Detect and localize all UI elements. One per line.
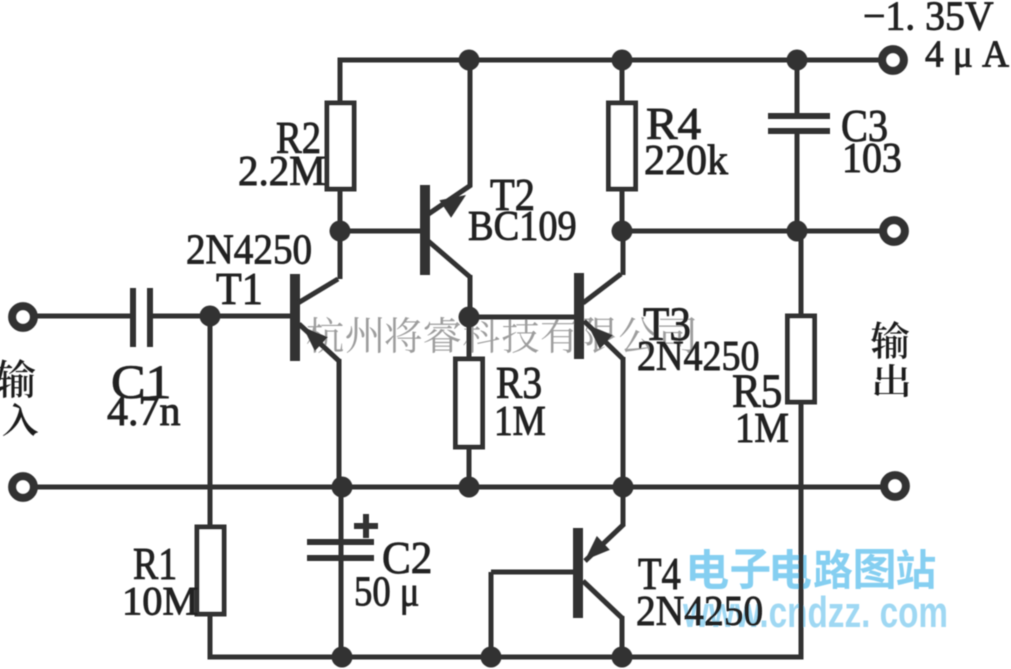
watermark blue site name: [690, 549, 935, 589]
wire C3 top lead: [795, 60, 800, 113]
transistor T1 2N4250: [290, 231, 343, 487]
svg-text:4.7n: 4.7n: [107, 389, 181, 435]
terminal -1.35V supply: [882, 49, 904, 71]
wire R3 bottom lead: [467, 447, 472, 487]
wire R5 bottom lead: [799, 402, 804, 660]
label input chinese: [0, 359, 38, 436]
resistor R1: [197, 527, 224, 614]
wire R5 top lead: [799, 231, 804, 316]
svg-text:T1: T1: [216, 265, 263, 315]
wire C1 to T1 base: [153, 314, 290, 319]
capacitor C1: [130, 288, 153, 347]
wire R4 bottom lead: [620, 189, 625, 231]
watermark gray company text: [307, 317, 695, 353]
capacitor C2 electrolytic: [307, 514, 378, 561]
svg-text:2.2M: 2.2M: [238, 148, 326, 195]
node R4 / T3 collector / rail2: [612, 221, 633, 242]
terminal input top: [12, 306, 34, 328]
wire T2 to T3 base: [469, 315, 574, 320]
wire R4 top lead: [620, 58, 625, 104]
svg-text:220k: 220k: [644, 138, 728, 184]
svg-text:4 μ A: 4 μ A: [925, 33, 1009, 75]
label output chinese: [871, 321, 909, 397]
svg-text:103: 103: [842, 134, 902, 181]
transistor T3 2N4250: [574, 231, 626, 487]
wire R3 top lead: [467, 317, 472, 359]
resistor R3: [456, 359, 483, 447]
svg-text:2N4250: 2N4250: [636, 588, 763, 634]
wire R1 top lead: [208, 316, 213, 527]
node R2 / T1 collector / T2 base: [330, 221, 351, 242]
wire middle output rail: [33, 485, 882, 490]
svg-text:50 μ: 50 μ: [354, 568, 419, 615]
resistor R5: [788, 316, 815, 402]
resistor R4: [609, 103, 636, 189]
wire C2 vertical lead: [339, 487, 344, 657]
node middle rail / T1 emitter / C2: [332, 477, 353, 498]
wire R1 bottom lead: [208, 614, 213, 660]
node bottom rail / T4 base: [481, 647, 502, 668]
node middle rail / T3 emitter / T4 collector: [613, 477, 634, 498]
transistor T2 BC109: [340, 60, 473, 317]
node top rail / T2 emitter: [459, 50, 480, 71]
svg-text:1M: 1M: [494, 398, 546, 445]
svg-text:BC109: BC109: [468, 202, 577, 249]
terminal output: [884, 475, 906, 497]
node bottom rail / T4 emitter: [612, 647, 633, 668]
node bottom rail / C2: [332, 647, 353, 668]
wire second rail: [622, 229, 881, 234]
wire input to C1: [33, 314, 130, 319]
svg-text:10M: 10M: [122, 579, 199, 624]
node rail2 / C3: [787, 221, 808, 242]
wire R2 bottom lead: [338, 189, 343, 231]
resistor R2: [327, 103, 354, 189]
wire C3 bottom lead: [795, 134, 800, 231]
svg-text:1M: 1M: [735, 405, 789, 452]
terminal second output: [883, 220, 905, 242]
node base / R1: [200, 306, 221, 327]
wire R2 top lead: [338, 58, 343, 104]
node top rail / R4: [612, 50, 633, 71]
wire top supply rail: [338, 58, 881, 63]
node top rail / C3: [787, 50, 808, 71]
terminal input bottom: [12, 476, 34, 498]
transistor T4 2N4250: [489, 487, 626, 657]
wire bottom rail: [208, 655, 804, 660]
node middle rail / R3: [459, 477, 480, 498]
capacitor C3: [768, 113, 830, 134]
node T2 collector / R3 / T3 base: [459, 307, 480, 328]
